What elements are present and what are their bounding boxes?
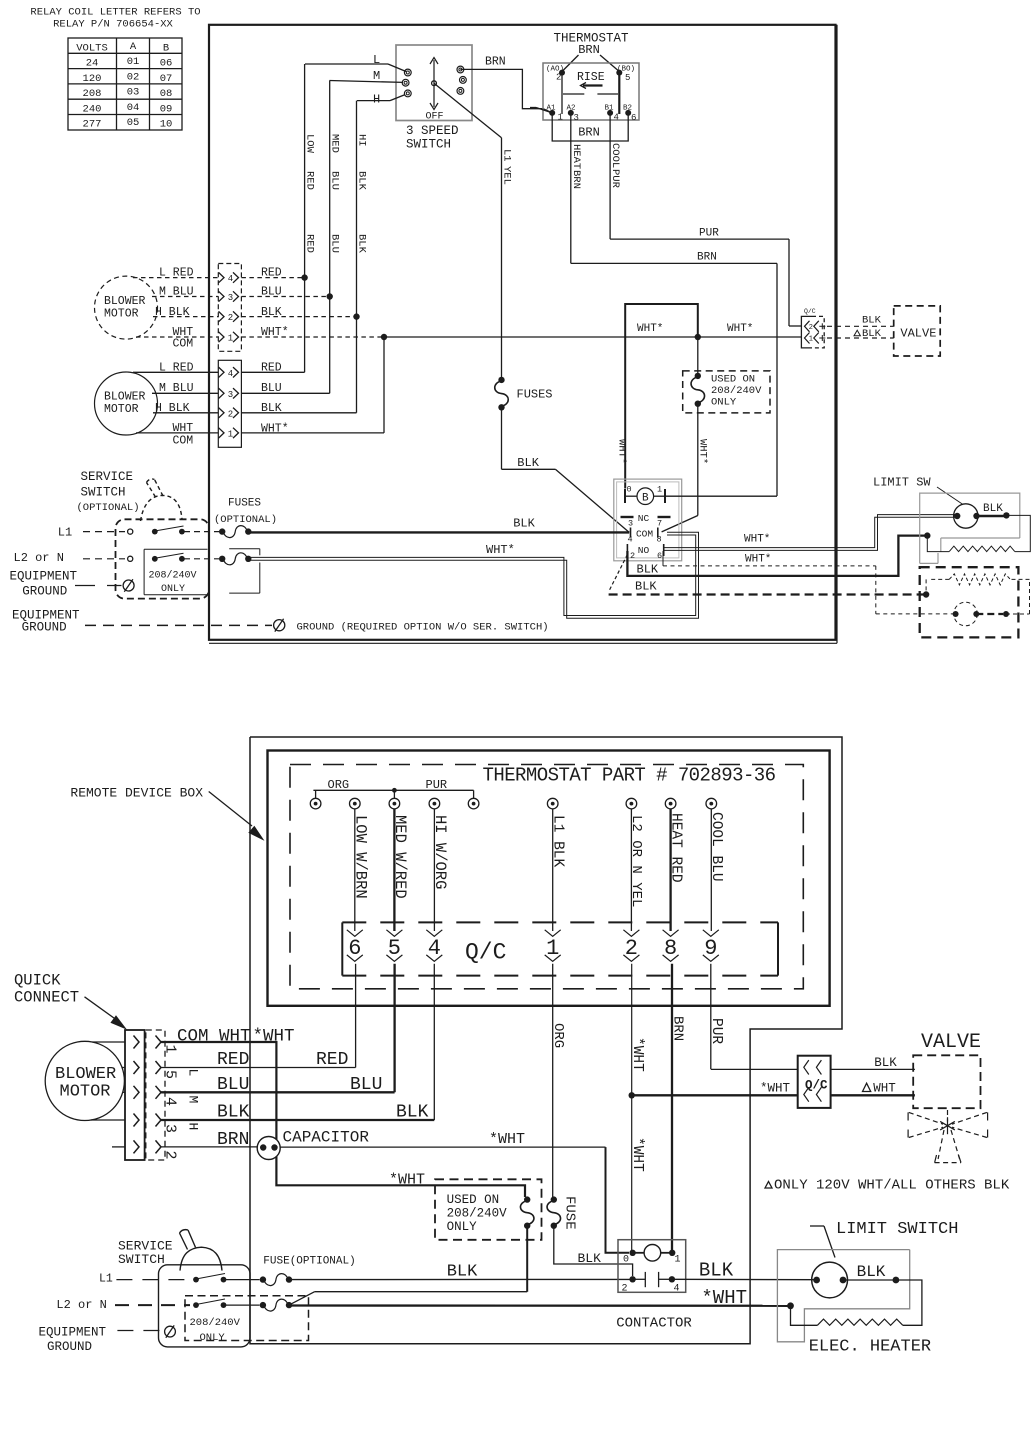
wire *WHT L2 to limit switch (289, 1304, 788, 1307)
svg-text:(OPTIONAL): (OPTIONAL) (214, 514, 277, 526)
svg-text:L2 or N: L2 or N (56, 1298, 106, 1312)
svg-text:RED: RED (304, 234, 316, 253)
relay coil B (624, 489, 626, 503)
svg-text:BLU: BLU (261, 286, 282, 299)
svg-text:EQUIPMENT: EQUIPMENT (10, 570, 78, 584)
svg-text:BRN: BRN (697, 252, 717, 264)
svg-text:1: 1 (162, 1045, 179, 1054)
svg-text:ONLY: ONLY (447, 1220, 478, 1234)
svg-text:USED ON: USED ON (711, 374, 755, 386)
relay NC contacts (621, 516, 634, 518)
svg-text:09: 09 (160, 103, 173, 115)
svg-text:BLU: BLU (217, 1075, 249, 1095)
svg-text:*WHT: *WHT (389, 1172, 425, 1189)
wire BLK L1 to contactor (289, 1278, 630, 1280)
wire BLK fuse to relay COM (501, 407, 503, 469)
svg-text:PUR: PUR (609, 169, 621, 189)
svg-text:BLU: BLU (329, 171, 341, 190)
svg-text:WHT*: WHT* (745, 554, 771, 566)
svg-text:4: 4 (627, 535, 632, 545)
svg-text:4: 4 (673, 1284, 679, 1295)
remote device box outline (250, 737, 842, 1344)
svg-text:BRN: BRN (578, 43, 600, 57)
svg-text:*WHT: *WHT (253, 1027, 295, 1047)
svg-text:L1: L1 (58, 526, 72, 540)
svg-text:WHT*: WHT* (261, 326, 289, 339)
svg-text:BLOWER: BLOWER (104, 391, 146, 404)
svg-text:WHT*: WHT* (616, 439, 628, 464)
svg-text:0: 0 (623, 1255, 629, 1266)
svg-text:ELEC. HEATER: ELEC. HEATER (809, 1338, 931, 1357)
svg-text:05: 05 (127, 117, 140, 129)
relay COM terminals (630, 528, 632, 538)
wire BLK L1 feed to COM (248, 531, 629, 533)
svg-text:BLOWER: BLOWER (55, 1065, 116, 1084)
svg-text:240: 240 (83, 103, 102, 115)
svg-text:MOTOR: MOTOR (60, 1083, 111, 1102)
relay B box (614, 479, 682, 561)
qc1 output dashed wires to junctions (241, 277, 304, 279)
svg-text:PUR: PUR (708, 1018, 724, 1044)
svg-text:H BLK: H BLK (155, 306, 190, 319)
svg-text:A2: A2 (567, 105, 576, 113)
svg-text:*WHT: *WHT (489, 1131, 525, 1148)
svg-text:ORG: ORG (550, 1023, 566, 1048)
svg-text:RED: RED (261, 267, 282, 280)
svg-text:*WHT: *WHT (629, 1037, 645, 1072)
svg-text:BLU: BLU (350, 1075, 382, 1095)
svg-text:WHT*: WHT* (637, 323, 663, 335)
valve QC (bottom) (798, 1056, 831, 1108)
wire COM WHT (161, 1042, 525, 1197)
svg-text:03: 03 (127, 87, 140, 99)
svg-text:2: 2 (556, 73, 561, 83)
wire BLK QC to valve (831, 1068, 915, 1070)
svg-text:LIMIT SW: LIMIT SW (873, 476, 931, 490)
svg-text:L: L (186, 1069, 201, 1077)
svg-text:1: 1 (228, 430, 233, 440)
svg-text:H: H (373, 93, 380, 107)
valve actuator symbol (947, 1117, 949, 1134)
svg-text:VALVE: VALVE (900, 327, 936, 341)
svg-text:COM: COM (173, 338, 194, 351)
208/240V only area (top) (143, 549, 145, 594)
svg-text:6: 6 (657, 551, 662, 561)
wire BRN row (161, 1146, 258, 1148)
svg-text:LIMIT SWITCH: LIMIT SWITCH (836, 1220, 958, 1239)
wire A1 left stub (536, 108, 552, 113)
dashed diagonal from NO-2 (609, 555, 628, 592)
svg-text:3 SPEED: 3 SPEED (406, 124, 459, 138)
svg-text:L1 BLK: L1 BLK (550, 815, 566, 868)
quick connect 2 (solid) (218, 360, 241, 447)
svg-text:SWITCH: SWITCH (81, 486, 126, 500)
wire from fuse2 to contactor 2 (554, 1226, 633, 1276)
svg-text:GROUND (REQUIRED OPTION W/O SE: GROUND (REQUIRED OPTION W/O SER. SWITCH) (297, 622, 549, 634)
wire pair NO-6 to limit switch (664, 517, 957, 547)
wire from fuse1 down to L2 node (526, 1226, 528, 1292)
svg-text:L2 OR N YEL: L2 OR N YEL (628, 815, 644, 907)
svg-text:BLK: BLK (217, 1103, 250, 1123)
svg-text:RELAY COIL LETTER REFERS TO: RELAY COIL LETTER REFERS TO (30, 7, 200, 19)
svg-text:208/240V: 208/240V (711, 385, 762, 397)
svg-text:COM: COM (636, 529, 653, 540)
svg-text:4: 4 (162, 1097, 179, 1106)
table: relay volts codes (68, 38, 182, 130)
svg-text:08: 08 (160, 88, 173, 100)
second limit switch dashed box (920, 567, 1019, 637)
svg-text:BLK: BLK (578, 1251, 602, 1266)
svg-text:RED: RED (304, 171, 316, 190)
svg-text:GROUND: GROUND (47, 1340, 92, 1354)
thermostat dashed box (290, 765, 803, 989)
qc1 contacts (219, 272, 225, 282)
svg-text:GROUND: GROUND (22, 585, 67, 599)
svg-text:H: H (186, 1123, 201, 1131)
svg-text:8: 8 (656, 535, 661, 545)
svg-text:2: 2 (809, 324, 813, 332)
wire NO-2 black to limit switch (627, 536, 925, 576)
dashed aux wire NO-6 to second limit (662, 551, 664, 566)
svg-text:BLK: BLK (261, 306, 282, 319)
svg-text:*WHT: *WHT (701, 1287, 747, 1309)
svg-text:BLK: BLK (983, 503, 1003, 515)
wire M to switch (330, 81, 404, 83)
svg-text:277: 277 (83, 119, 102, 131)
svg-text:24: 24 (86, 58, 99, 70)
bracket at L2 fuse (229, 548, 260, 550)
QC strip (341, 922, 343, 975)
svg-text:WHT*: WHT* (744, 534, 770, 546)
qc2 output wires (241, 371, 304, 373)
svg-text:CAPACITOR: CAPACITOR (283, 1129, 370, 1147)
svg-text:VALVE: VALVE (921, 1031, 981, 1054)
svg-text:208/240V: 208/240V (149, 570, 197, 582)
svg-text:L RED: L RED (159, 267, 194, 280)
svg-text:BLK: BLK (396, 1103, 429, 1123)
svg-text:RED: RED (217, 1050, 249, 1070)
contactor (618, 1240, 686, 1293)
svg-text:L1: L1 (501, 149, 513, 162)
service switch dashed boundary (116, 519, 210, 598)
svg-text:3: 3 (574, 113, 579, 123)
svg-text:2: 2 (228, 409, 233, 419)
svg-text:L: L (373, 53, 380, 67)
thermostat lead wires down to QC strip (354, 809, 356, 931)
wire MED BLU vertical (329, 81, 331, 394)
svg-text:1: 1 (558, 113, 563, 123)
svg-text:MOTOR: MOTOR (104, 403, 139, 416)
svg-text:VOLTS: VOLTS (76, 43, 108, 55)
svg-text:WHT: WHT (173, 422, 194, 435)
svg-text:SWITCH: SWITCH (406, 138, 451, 152)
svg-text:3: 3 (628, 519, 633, 529)
svg-text:FUSES: FUSES (517, 388, 553, 402)
svg-text:2: 2 (621, 1284, 627, 1295)
wire BLK dashed to second limit (609, 593, 924, 595)
svg-text:LOW: LOW (304, 134, 316, 154)
svg-text:3: 3 (228, 293, 233, 303)
svg-text:BLK: BLK (699, 1260, 734, 1282)
svg-text:B: B (163, 43, 169, 55)
main fuses on L1 YEL (498, 377, 504, 383)
wire BRN switch to thermostat (460, 69, 552, 113)
svg-text:BRN: BRN (485, 56, 506, 69)
svg-text:2: 2 (162, 1151, 179, 1160)
relay NO terminals (626, 544, 628, 556)
svg-text:BLK: BLK (517, 456, 539, 470)
svg-text:(OPTIONAL): (OPTIONAL) (77, 502, 140, 514)
svg-text:QUICK: QUICK (14, 972, 61, 990)
svg-text:L2 or N: L2 or N (14, 551, 64, 565)
svg-text:ONLY: ONLY (200, 1332, 226, 1344)
svg-text:GROUND: GROUND (22, 621, 67, 635)
thermostat screw terminals (310, 798, 321, 809)
elec heater (896, 1280, 922, 1325)
svg-text:BLU: BLU (329, 234, 341, 253)
svg-text:4: 4 (228, 274, 233, 284)
BRN loop A1-B2 (552, 113, 628, 141)
WHT* loop to relay coil (625, 304, 698, 489)
svg-text:PUR: PUR (426, 778, 448, 792)
svg-text:HI W/ORG: HI W/ORG (431, 815, 449, 889)
junction dots on vertical wires (301, 274, 307, 280)
svg-text:4: 4 (228, 369, 233, 379)
svg-text:LOW W/BRN: LOW W/BRN (352, 815, 370, 899)
svg-text:B2: B2 (623, 105, 632, 113)
svg-text:07: 07 (160, 73, 173, 85)
svg-text:SWITCH: SWITCH (118, 1252, 165, 1267)
svg-text:COM: COM (173, 435, 194, 448)
toggle handle dashed (141, 495, 183, 521)
svg-text:208/240V: 208/240V (190, 1317, 241, 1329)
wire pair WHT* from L2 fuse (250, 535, 696, 616)
wire L to switch (305, 63, 388, 65)
svg-text:CONNECT: CONNECT (14, 989, 79, 1007)
svg-text:ORG: ORG (328, 778, 350, 792)
svg-text:BLK: BLK (356, 234, 368, 254)
svg-text:6: 6 (631, 113, 636, 123)
svg-text:USED ON: USED ON (447, 1193, 500, 1207)
svg-text:REMOTE DEVICE BOX: REMOTE DEVICE BOX (70, 786, 203, 801)
fuse on wire1 (551, 1196, 557, 1202)
wire COOL PUR from B1 (609, 113, 611, 239)
note only 120V (765, 1182, 772, 1189)
svg-text:BLK: BLK (862, 315, 882, 327)
svg-text:BLK: BLK (857, 1263, 886, 1281)
svg-text:BLK: BLK (637, 563, 659, 577)
svg-text:HEAT: HEAT (570, 144, 582, 169)
svg-text:B1: B1 (605, 105, 615, 113)
wire LOW RED vertical (304, 64, 306, 372)
wire *WHT to valve QC (632, 1094, 798, 1096)
svg-text:FUSE(OPTIONAL): FUSE(OPTIONAL) (263, 1256, 355, 1268)
svg-text:208: 208 (83, 88, 102, 100)
valve box (top) (894, 306, 941, 356)
blower motor 2 (solid) (95, 372, 158, 435)
svg-text:4: 4 (614, 113, 619, 123)
svg-text:BRN: BRN (217, 1130, 249, 1150)
svg-text:WHT*: WHT* (486, 543, 515, 557)
svg-text:COOL BLU: COOL BLU (708, 812, 724, 882)
svg-text:BLU: BLU (261, 382, 282, 395)
svg-text:1: 1 (809, 336, 813, 344)
svg-text:2: 2 (228, 313, 233, 323)
svg-text:M: M (186, 1096, 201, 1104)
svg-text:A: A (130, 41, 137, 53)
svg-text:3: 3 (162, 1124, 179, 1133)
svg-text:1: 1 (228, 334, 233, 344)
svg-text:RED: RED (316, 1050, 348, 1070)
svg-text:BLK: BLK (447, 1263, 478, 1282)
wires below QC strip (355, 964, 357, 1068)
svg-text:B: B (642, 492, 649, 504)
fuse 208/240 (bottom) (524, 1196, 530, 1202)
svg-text:BRN: BRN (578, 126, 600, 140)
wire L1 YEL diagonal from rotary (434, 83, 502, 138)
junction dot on wire2 (629, 1092, 635, 1098)
svg-text:ONLY 120V WHT/ALL OTHERS BLK: ONLY 120V WHT/ALL OTHERS BLK (774, 1178, 1010, 1194)
svg-text:*WHT: *WHT (760, 1082, 791, 1096)
wire HI BLK vertical (356, 101, 358, 413)
WHT* bus (384, 336, 801, 338)
motor1 dashed leads (133, 277, 218, 279)
svg-text:BLK: BLK (874, 1056, 897, 1070)
svg-text:M BLU: M BLU (159, 286, 194, 299)
svg-text:02: 02 (127, 71, 140, 83)
wire WHT* riser to bus (383, 337, 385, 433)
svg-text:120: 120 (83, 73, 102, 85)
svg-text:ONLY: ONLY (711, 397, 737, 409)
svg-text:BLK: BLK (862, 328, 882, 340)
svg-text:BLK: BLK (513, 517, 535, 531)
svg-text:06: 06 (160, 58, 173, 70)
3 speed switch (396, 45, 472, 121)
qc2 contacts (219, 367, 225, 377)
svg-text:Q/C: Q/C (805, 1078, 828, 1092)
svg-text:BLK: BLK (635, 580, 657, 594)
valve box (bottom) (913, 1055, 980, 1108)
QC connector to valve (top) (801, 316, 812, 348)
capacitor (257, 1137, 280, 1160)
svg-text:04: 04 (127, 102, 140, 114)
wire HEAT BRN from A2 (570, 113, 572, 264)
svg-text:SERVICE: SERVICE (81, 470, 134, 484)
svg-text:COM WHT: COM WHT (177, 1027, 251, 1047)
svg-text:BRN: BRN (570, 170, 582, 189)
svg-text:RISE: RISE (577, 71, 605, 84)
wire coil to BRN riser (665, 495, 777, 497)
dashed BLK wires to valve (827, 325, 894, 327)
svg-text:01: 01 (127, 56, 140, 68)
svg-text:CONTACTOR: CONTACTOR (616, 1316, 692, 1332)
svg-text:L RED: L RED (159, 362, 194, 375)
svg-text:HI: HI (356, 134, 368, 147)
svg-text:M: M (373, 69, 380, 83)
svg-text:EQUIPMENT: EQUIPMENT (39, 1326, 107, 1340)
contactor contacts 2-4 (629, 1276, 635, 1282)
svg-text:ONLY: ONLY (161, 584, 185, 595)
svg-text:NC: NC (638, 513, 650, 524)
svg-text:0: 0 (626, 485, 631, 495)
svg-text:5: 5 (162, 1070, 179, 1079)
svg-text:WHT: WHT (873, 1082, 896, 1096)
svg-text:HEAT RED: HEAT RED (667, 813, 683, 883)
svg-text:Q/C: Q/C (804, 308, 816, 315)
svg-text:BLOWER: BLOWER (104, 295, 146, 308)
svg-text:NO: NO (638, 545, 650, 556)
outer enclosure box (top diagram) (209, 25, 836, 640)
QC strip terminals and numbers (347, 930, 363, 937)
wire H to switch (357, 100, 390, 102)
svg-text:L1: L1 (99, 1272, 113, 1285)
thermostat enclosure box (268, 751, 830, 1006)
motor leads (92, 1041, 125, 1043)
svg-text:MED W/RED: MED W/RED (391, 815, 409, 899)
wire BLK contactor to limit switch (672, 1278, 817, 1280)
wire *WHT from capacitor (280, 1146, 605, 1148)
svg-text:7: 7 (657, 519, 662, 529)
blower motor (bottom) (45, 1041, 124, 1120)
blower motor 1 (dashed) (95, 276, 158, 339)
svg-text:MOTOR: MOTOR (104, 308, 139, 321)
svg-text:FUSE: FUSE (562, 1196, 578, 1230)
208/240V dashed box (bottom) (185, 1296, 309, 1341)
svg-text:10: 10 (160, 119, 173, 131)
used on 208/240V only box (top) (683, 371, 770, 413)
wire RED row (161, 1067, 356, 1069)
svg-text:BLK: BLK (261, 402, 282, 415)
svg-text:RED: RED (261, 362, 282, 375)
svg-text:THERMOSTAT PART # 702893-36: THERMOSTAT PART # 702893-36 (483, 765, 776, 787)
svg-text:BRN: BRN (669, 1016, 685, 1041)
svg-text:PUR: PUR (699, 228, 719, 240)
svg-text:MED: MED (329, 134, 341, 153)
wire BLU row (161, 1091, 395, 1093)
fused 208/240 branch (697, 337, 699, 376)
motor quick connector (125, 1030, 145, 1160)
motor2 solid leads (133, 371, 218, 373)
svg-text:YEL: YEL (501, 166, 513, 185)
svg-text:Q/C: Q/C (465, 940, 506, 966)
svg-text:FUSES: FUSES (228, 498, 261, 510)
svg-text:M BLU: M BLU (159, 382, 194, 395)
wire WHT QC to valve (831, 1094, 915, 1096)
wire BLK row (161, 1119, 434, 1121)
wire PUR to valve QC (711, 1068, 798, 1070)
ORG PUR jumper bus (313, 789, 473, 791)
svg-text:BLK: BLK (356, 171, 368, 191)
svg-text:OFF: OFF (425, 111, 443, 122)
svg-text:3: 3 (228, 390, 233, 400)
svg-text:COOL: COOL (609, 143, 621, 168)
svg-text:WHT*: WHT* (727, 323, 753, 335)
dashed heater zigzag (949, 574, 1010, 585)
svg-text:WHT*: WHT* (261, 423, 289, 436)
svg-text:1: 1 (674, 1255, 680, 1266)
svg-text:*WHT: *WHT (629, 1137, 645, 1172)
svg-text:2: 2 (630, 551, 635, 561)
svg-text:208/240V: 208/240V (447, 1207, 508, 1221)
quick connect 1 (dashed) (218, 264, 241, 352)
svg-text:5: 5 (625, 73, 630, 83)
svg-text:RELAY P/N 706654-XX: RELAY P/N 706654-XX (53, 19, 173, 31)
svg-text:H BLK: H BLK (155, 402, 190, 415)
svg-text:1: 1 (657, 485, 662, 495)
